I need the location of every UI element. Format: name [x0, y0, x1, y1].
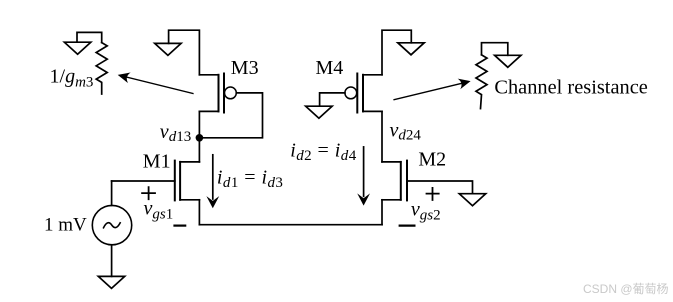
svg-text:vd24: vd24	[390, 120, 422, 144]
svg-text:M2: M2	[418, 149, 446, 171]
svg-text:1/gm3: 1/gm3	[50, 66, 94, 91]
svg-text:id2 = id4: id2 = id4	[290, 140, 357, 165]
svg-text:vgs1: vgs1	[144, 198, 174, 223]
svg-text:M4: M4	[316, 57, 344, 79]
svg-text:vd13: vd13	[160, 121, 191, 145]
svg-text:vgs2: vgs2	[411, 199, 441, 224]
svg-text:M3: M3	[231, 57, 259, 79]
svg-text:CSDN @葡萄杨: CSDN @葡萄杨	[583, 281, 669, 296]
svg-text:Channel resistance: Channel resistance	[494, 77, 648, 99]
svg-text:M1: M1	[143, 151, 171, 173]
svg-text:id1 = id3: id1 = id3	[217, 167, 283, 192]
svg-text:1 mV: 1 mV	[44, 214, 87, 235]
